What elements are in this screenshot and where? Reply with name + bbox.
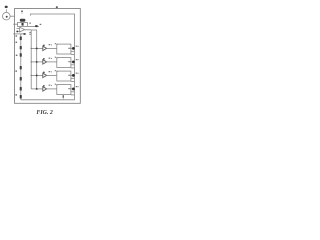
svg-text:FIG. 2: FIG. 2 <box>36 110 52 116</box>
